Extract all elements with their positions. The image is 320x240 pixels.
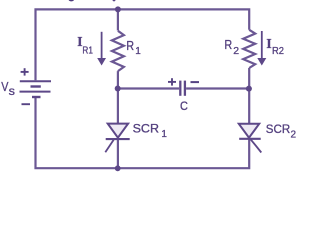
svg-text:s: s bbox=[9, 86, 16, 98]
svg-text:2: 2 bbox=[291, 129, 297, 140]
svg-text:R: R bbox=[126, 38, 134, 53]
svg-text:1: 1 bbox=[135, 46, 141, 57]
svg-text:SCR: SCR bbox=[133, 122, 160, 136]
svg-text:R2: R2 bbox=[272, 45, 284, 57]
svg-text:R1: R1 bbox=[82, 44, 93, 56]
svg-text:C: C bbox=[180, 99, 188, 113]
svg-text:R: R bbox=[224, 37, 232, 52]
svg-text:2: 2 bbox=[233, 45, 239, 57]
svg-text:SCR: SCR bbox=[266, 122, 291, 136]
svg-text:I: I bbox=[266, 36, 271, 51]
svg-text:1: 1 bbox=[161, 129, 167, 140]
